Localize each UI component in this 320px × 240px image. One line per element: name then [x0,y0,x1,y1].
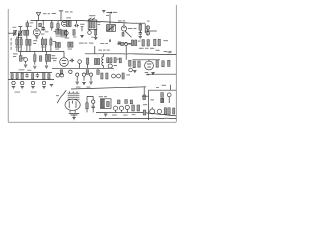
capacitor C13 [78,60,82,69]
resistor R9 [73,30,75,36]
capacitor C15 [56,73,60,77]
value label [15,46,22,49]
potentiometer R16 volume [19,52,24,62]
resistor R22 [58,42,60,47]
resistor R8 [59,29,61,34]
capacitor C30 [125,100,128,104]
ground [72,118,75,120]
capacitor C39 [112,74,116,78]
value label [147,20,150,23]
ground [35,37,38,39]
resistor R51 [86,96,88,112]
wire AVC bottom [8,79,54,81]
capacitor C20 [25,73,28,78]
capacitor C8 [139,31,142,36]
value label [30,21,34,24]
inductor L3 [26,39,28,45]
wire power cord [57,90,66,103]
capacitor C26 filter [69,113,79,117]
value label [143,99,154,105]
resistor R14 [20,39,22,45]
value label [80,24,84,27]
resistor R18 [39,56,41,61]
resistor R23 [68,42,70,47]
resistor R45 [11,74,13,79]
transformer T3 power [68,91,80,99]
capacitor C19 [129,68,133,72]
value label [65,11,73,12]
wire to speaker [133,53,176,56]
resistor R13 [16,39,18,45]
resistor R53 [132,105,135,111]
capacitor C34 electrolytic [125,105,129,112]
resistor R19 [45,52,47,65]
wire shield box [17,33,19,52]
wire B+ feed right [146,73,176,75]
capacitor C25 [42,81,45,84]
ground [42,87,45,89]
resistor R46 [16,74,18,79]
capacitor C11 [24,58,28,64]
resistor R34 [119,58,121,63]
resistor R35 [129,60,131,66]
ground [31,87,34,89]
capacitor C14 [69,70,72,73]
resistor R50 [48,74,50,79]
resistor R15 [50,39,52,45]
resistor R20 [48,54,50,61]
value label [79,43,93,44]
resistor R6 [69,21,71,27]
capacitor C10 [45,39,47,45]
wire arrow to chassis [107,12,113,14]
value label [139,40,168,51]
ground [82,82,85,84]
resistor R49 [43,73,45,80]
resistor R26 [94,58,96,64]
wire left input [8,32,14,34]
resistor R30 [97,70,99,75]
resistor R40 [133,61,135,68]
wire diagonal [125,31,132,37]
resistor R38 [154,39,156,46]
capacitor C24 [31,81,34,84]
wire [170,85,172,91]
value label [106,12,117,16]
capacitor C17 [121,42,128,45]
wire AVC top [10,72,52,74]
capacitor C1 trimmer [13,30,17,36]
value label [89,15,101,25]
resistor R43 [162,61,164,67]
value label [33,40,37,44]
value label [51,55,55,59]
capacitor C6 [64,30,68,38]
resistor R61 [101,73,103,79]
resistor R57 [168,108,170,115]
dial lamp P1 [146,26,150,30]
capacitor C35 [167,93,171,103]
ground [151,72,154,74]
capacitor C33 electrolytic [119,106,123,112]
wire [143,87,145,95]
resistor R33 [114,58,116,63]
value label [17,36,22,39]
resistor R59 [131,40,133,46]
capacitor C23 [21,81,24,84]
wire lamp string [147,25,149,35]
ground [139,37,142,39]
value label [12,26,56,33]
ground [76,82,79,84]
value label [156,85,166,88]
resistor R37 [147,40,149,46]
resistor R41 [138,61,140,67]
resistor R56 [164,108,166,115]
inductor L4 [29,39,31,45]
wire speaker box [142,90,176,120]
wire plate feed [85,44,133,60]
resistor R25 [86,58,88,68]
wire drop to detector bus [109,14,111,24]
resistor R28 [60,70,62,75]
capacitor C3 [26,20,29,30]
value label [164,51,172,52]
resistor R12 [139,23,142,31]
resistor R58 [173,108,175,114]
capacitor C31 [130,100,132,104]
resistor R63 [122,73,124,79]
wire HT bus [71,87,146,89]
speaker SP1 [150,107,155,114]
ground [80,35,83,37]
tube V1 converter [33,20,40,35]
capacitor C40 [117,74,121,78]
resistor R64 [143,95,146,100]
capacitor C36 [143,110,146,115]
capacitor C27 [92,96,95,105]
ground [21,87,24,89]
capacitor C22 [12,81,15,84]
ground [24,65,27,67]
resistor R31 [107,58,109,63]
capacitor C16 [60,73,64,77]
wire B+ top bus [31,20,133,23]
dial lamp P2 [146,31,150,35]
ground [12,87,15,89]
resistor R1 [51,21,53,31]
capacitor C21 [36,73,39,78]
wire [145,30,157,32]
value label [117,59,120,60]
resistor R17 [34,52,36,65]
resistor R5 [66,21,68,27]
value label [167,51,171,54]
wire [132,23,145,33]
capacitor C32 electrolytic [113,106,117,112]
capacitor C18 [108,64,112,68]
resistor R11 [122,32,124,36]
capacitor C7 [88,29,92,34]
value label [52,58,57,61]
resistor R27 [97,58,99,64]
wire [81,27,83,31]
value label [73,37,95,38]
transformer T1 1st IF [88,18,97,30]
resistor R39 [158,39,160,46]
capacitor C4 [42,26,45,31]
value label [43,13,56,14]
trimmer TC1 [76,73,79,81]
capacitor C29 [117,100,120,104]
value label [98,50,109,51]
value label [55,48,72,51]
inductor L2 [27,30,29,35]
ground [133,70,136,72]
value label [41,41,56,48]
value label [19,69,32,70]
ground [50,85,53,87]
inductor L1 [24,30,26,35]
ground [94,37,97,39]
capacitor C5 [74,24,79,27]
wire detector output [132,22,145,24]
resistor R44 [168,60,170,66]
ground [104,114,107,116]
value label [112,114,135,115]
tube V3 det [121,23,126,31]
value label [56,36,70,39]
trimmer TC3 [89,73,92,81]
value label [126,74,130,75]
tube V6 rectifier [65,99,80,112]
value label top row [138,41,141,42]
resistor R4 [64,30,66,35]
capacitor C37 [157,109,161,113]
resistor R21 [55,42,57,47]
wire antenna lead-in [59,11,63,21]
inductor L5 field coil [102,54,104,69]
value label [61,35,67,38]
tube V2 IF amp [62,20,68,26]
resistor R52 bleeder [100,99,111,109]
tube V4 1st AF [60,52,69,67]
value label [145,72,150,75]
value label [41,29,45,34]
junction dots [38,20,111,24]
resistor R3 [61,30,63,35]
antenna A1 [36,12,40,20]
wire [87,96,93,112]
capacitor C12 [70,59,75,62]
resistor R42 [156,61,158,68]
wire [76,22,78,24]
value label [109,39,131,44]
resistor R2 [57,21,59,31]
capacitor C9 [41,39,43,45]
resistor R47 [21,73,23,79]
resistor R60 [135,40,137,46]
value label [99,96,107,97]
wire output bus [132,59,160,61]
ground [33,66,36,68]
ground [89,82,92,84]
value label [13,53,18,57]
tube V5 output [145,60,154,70]
value label [152,117,170,120]
resistor R48 [32,74,34,79]
value label [15,91,37,94]
ground [102,11,105,13]
resistor R36 [142,40,144,46]
wire lower bus [99,117,176,119]
wire main B- bus [96,112,176,116]
wire stems [17,35,51,51]
resistor R54 [137,105,140,111]
value label [118,20,125,21]
resistor R24 [71,42,73,47]
value label [56,94,59,97]
transformer T2 2nd IF [107,25,116,32]
resistor R7 [56,29,58,34]
resistor R62 [106,73,108,79]
value label [100,42,108,45]
wire audio bus [52,67,114,69]
value label [76,86,90,89]
ground [45,66,48,68]
resistor R55 [161,93,164,103]
trimmer TC2 [82,73,85,81]
wire [42,21,44,26]
wire AVC bus [18,51,64,53]
capacitor C28 [92,105,95,110]
capacitor C2 tuning [18,27,23,37]
value label [128,28,137,29]
resistor R29 [86,70,88,75]
value label [114,53,129,66]
resistor R32 [110,58,112,63]
capacitor C38 [39,23,42,27]
value label [66,16,71,19]
resistor R10 [95,30,97,37]
